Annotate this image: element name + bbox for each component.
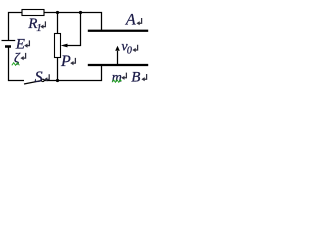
svg-text:B: B xyxy=(131,70,140,86)
svg-text:P: P xyxy=(60,53,71,70)
svg-text:m: m xyxy=(112,71,122,86)
svg-text:S: S xyxy=(35,69,43,86)
svg-text:1: 1 xyxy=(36,22,42,34)
svg-text:A: A xyxy=(125,12,136,29)
svg-text:0: 0 xyxy=(127,45,132,56)
svg-text:ζ: ζ xyxy=(14,51,21,66)
